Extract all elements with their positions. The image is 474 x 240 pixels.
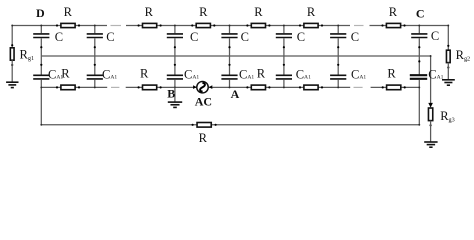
resistor R lower 5 — [387, 85, 401, 90]
svg-text:B: B — [167, 87, 175, 101]
svg-text:R: R — [145, 5, 154, 19]
wire bottom return — [41, 124, 419, 126]
svg-text:R: R — [257, 67, 266, 81]
junction dot below Rg2 — [447, 66, 449, 68]
ground below Rg2 — [442, 80, 455, 85]
svg-text:R: R — [254, 5, 263, 19]
svg-text:C: C — [55, 30, 63, 44]
svg-text:R: R — [64, 5, 73, 19]
wire column 2 mid stem crossing middle bus — [94, 38, 96, 74]
resistor R top 5 — [304, 23, 318, 27]
svg-text:C: C — [106, 30, 114, 44]
wire top bus dashed break 2 — [354, 25, 364, 27]
capacitor C (column 5) — [276, 33, 292, 35]
junction dot below middle bus col 6 — [337, 64, 339, 66]
wire lower bus dashed break 2 — [354, 86, 363, 88]
resistor R lower 1 — [61, 85, 75, 90]
svg-text:R: R — [199, 5, 208, 19]
wire column 3 mid stem crossing middle bus — [174, 38, 176, 74]
resistor R lower 2 — [143, 85, 157, 90]
capacitor C (column 7) — [411, 33, 427, 35]
wire column 5 upper stem — [283, 26, 285, 34]
junction dot below middle bus col 5 — [283, 64, 285, 66]
capacitor CA1 (column 1) — [33, 74, 49, 76]
svg-text:AC: AC — [195, 95, 212, 109]
junction dot above Rg2 — [447, 45, 449, 47]
wire column 5 lower stem — [283, 80, 285, 88]
wire column 2 lower stem — [94, 80, 96, 88]
wire middle bus drop to Rg3 — [430, 56, 432, 103]
junction dot above middle bus col 5 — [283, 46, 285, 48]
arrowhead right of AC source — [209, 85, 213, 89]
wire column 7 mid stem crossing middle bus — [418, 38, 420, 74]
capacitor CA1 (column 7) — [410, 74, 427, 76]
wire lower bus dashed break 1 — [111, 86, 119, 88]
wire lower bus right segment — [371, 86, 420, 88]
junction dot above middle bus col 3 — [174, 46, 176, 48]
resistor R top 6 — [386, 23, 400, 27]
wire column 4 mid stem crossing middle bus — [229, 38, 231, 74]
arrowhead into Rg3 — [428, 103, 433, 108]
wire column 6 upper stem — [337, 26, 339, 34]
svg-text:C: C — [241, 30, 249, 44]
wire column 7 upper stem — [418, 26, 420, 34]
wire bottom return left riser — [40, 87, 42, 124]
resistor R lower 3 — [251, 85, 265, 90]
svg-text:R: R — [199, 131, 208, 145]
junction dot below middle bus col 2 — [94, 64, 96, 66]
capacitor C (column 2) — [87, 33, 103, 35]
svg-text:R: R — [387, 67, 396, 81]
wire top bus right segment — [370, 25, 449, 27]
capacitor C (column 6) — [330, 33, 346, 35]
wire column 1 upper stem — [40, 26, 42, 34]
resistor R top 1 — [61, 23, 75, 27]
junction dot below Rg1 — [11, 64, 13, 66]
junction dot below Rg3 — [430, 124, 432, 126]
capacitor CA1 (column 5) — [276, 74, 292, 76]
wire middle bus — [41, 55, 430, 57]
resistor R top 3 — [196, 23, 210, 27]
capacitor CA1 (column 2) — [87, 74, 103, 76]
wire column 1 mid stem crossing middle bus — [40, 38, 42, 74]
wire column 3 lower stem — [174, 80, 176, 88]
capacitor C (column 4) — [221, 33, 237, 35]
svg-text:C: C — [351, 30, 359, 44]
wire top bus dashed break 1 — [111, 25, 122, 27]
wire column 4 lower stem — [229, 80, 231, 88]
svg-text:R: R — [389, 5, 398, 19]
AC source U1 — [197, 81, 209, 93]
svg-text:C: C — [297, 30, 305, 44]
arrowhead left of AC source — [193, 85, 197, 89]
wire column 2 upper stem — [94, 26, 96, 34]
wire right drop to Rg2 — [447, 26, 449, 51]
junction bulges — [11, 25, 449, 126]
junction dot below middle bus col 4 — [228, 64, 230, 66]
wire node B ground stem — [174, 87, 176, 102]
capacitor CA1 (column 6) — [330, 74, 346, 76]
wire top bus left segment — [12, 25, 107, 27]
svg-text:R: R — [140, 67, 149, 81]
svg-text:C: C — [416, 6, 425, 20]
wire bottom return right riser — [418, 87, 420, 124]
capacitor CA1 (column 3) — [167, 74, 183, 76]
wire column 1 lower stem — [40, 80, 42, 88]
wire column 6 lower stem — [337, 80, 339, 88]
junction dot above middle bus col 6 — [337, 46, 339, 48]
junction dot above Rg1 — [11, 44, 13, 46]
resistor R top 2 — [143, 23, 157, 27]
ground below Rg3 — [424, 142, 437, 147]
junction dot above middle bus col 4 — [228, 46, 230, 48]
ground at node B — [168, 102, 182, 107]
wire column 4 upper stem — [229, 26, 231, 34]
svg-text:R: R — [61, 67, 70, 81]
capacitor C (column 1) — [33, 33, 49, 35]
junction dot above middle bus col 1 — [40, 46, 42, 48]
resistor Rg2 — [446, 50, 450, 62]
ground below Rg1 — [6, 82, 18, 87]
wire column 7 lower stem — [418, 80, 420, 88]
svg-text:C: C — [190, 30, 198, 44]
wire left drop to Rg1 — [11, 26, 13, 48]
junction dot below middle bus col 7 — [418, 60, 420, 62]
wire column 6 mid stem crossing middle bus — [337, 38, 339, 74]
svg-text:A: A — [231, 87, 240, 101]
resistor Rg3 — [428, 108, 432, 121]
wire column 3 upper stem — [174, 26, 176, 34]
resistor R top 4 — [251, 23, 265, 27]
junction dot above middle bus col 7 — [418, 46, 420, 48]
wire lower bus left segment — [41, 86, 107, 88]
junction dot below middle bus col 1 — [40, 64, 42, 66]
junction dot above middle bus col 2 — [94, 46, 96, 48]
capacitor C (column 3) — [167, 33, 183, 35]
svg-text:D: D — [36, 6, 45, 20]
junction dot below middle bus col 3 — [174, 64, 176, 66]
resistor R lower 4 — [304, 85, 318, 90]
resistor Rg1 — [10, 48, 14, 60]
svg-text:R: R — [307, 5, 316, 19]
capacitor CA1 (column 4) — [221, 74, 237, 76]
resistor R bottom — [197, 123, 211, 128]
wire lower bus segment left of source — [126, 86, 197, 88]
wire column 5 mid stem crossing middle bus — [283, 38, 285, 74]
wire lower bus segment right of source — [209, 86, 350, 88]
svg-text:C: C — [431, 29, 439, 43]
wire top bus middle segment — [126, 25, 350, 27]
